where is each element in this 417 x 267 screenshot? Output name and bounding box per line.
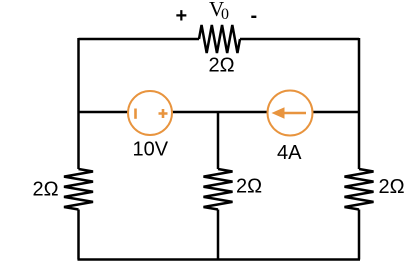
wire middle horizontal: [79, 111, 360, 114]
node label V0: [209, 0, 229, 23]
svg-text:4A: 4A: [277, 142, 302, 164]
resistor R4 2&#937; (middle): [204, 169, 233, 210]
resistor R2 2&#937; (left): [64, 169, 93, 210]
current source I1 4A: [268, 91, 313, 136]
resistor R1 2&#937; (top): [199, 25, 240, 53]
resistor R3 2&#937; (right): [345, 169, 374, 210]
wire bottom: [78, 258, 361, 261]
wire left rail upper: [77, 38, 80, 169]
svg-text:2Ω: 2Ω: [236, 176, 262, 198]
svg-text:2Ω: 2Ω: [209, 55, 235, 77]
svg-text:-: -: [251, 5, 258, 27]
wire top-left segment: [79, 38, 200, 41]
svg-text:10V: 10V: [133, 139, 169, 161]
wire left rail lower: [77, 210, 80, 260]
wire right rail lower: [358, 210, 361, 260]
wire top-right segment: [240, 38, 359, 41]
svg-text:+: +: [176, 5, 188, 27]
svg-text:2Ω: 2Ω: [33, 179, 59, 201]
wire middle vertical upper: [217, 112, 220, 169]
wire middle vertical lower: [217, 210, 220, 260]
wire right rail upper: [358, 38, 361, 169]
voltage source V1 10V: [128, 91, 172, 135]
svg-text:0: 0: [221, 6, 229, 23]
svg-text:2Ω: 2Ω: [379, 176, 405, 198]
